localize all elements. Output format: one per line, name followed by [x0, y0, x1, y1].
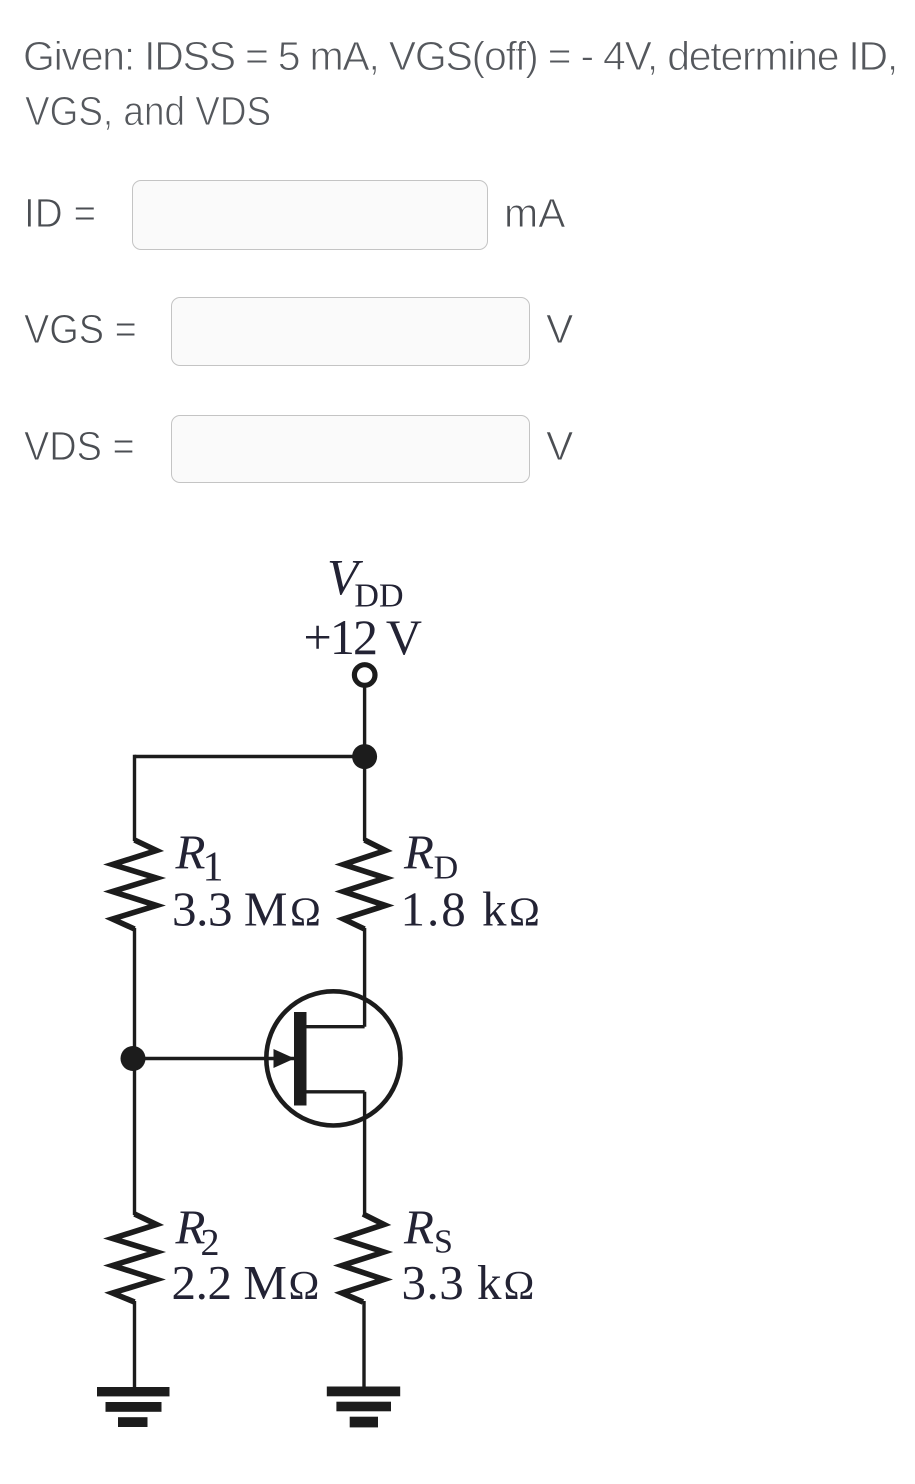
ground symbol right bar 3 [350, 1417, 378, 1428]
svg-text:1.8 k: 1.8 k [401, 882, 508, 937]
svg-text:Ω: Ω [509, 889, 540, 935]
svg-text:Ω: Ω [290, 889, 321, 935]
svg-text:R: R [403, 1200, 434, 1255]
wire: gate wire from gate node to JFET [135, 1057, 296, 1060]
ground symbol left bar 2 [106, 1402, 162, 1412]
ground symbol right bar 2 [336, 1402, 391, 1412]
question text line 2 [25, 88, 271, 135]
svg-text:3.3 k: 3.3 k [402, 1255, 503, 1310]
wire: right rail source down to RS [363, 1092, 366, 1215]
question text line 1 [23, 33, 897, 80]
wire: source stub from JFET [305, 1090, 365, 1093]
resistor RS 3.3 kohm zigzag [342, 1214, 384, 1302]
wire: drain stub into JFET [305, 1025, 365, 1028]
wire: left rail down to R1 [133, 755, 136, 841]
ground symbol left bar 1 [97, 1387, 170, 1396]
wire: right rail RS to ground [362, 1301, 365, 1388]
VDD terminal open circle [354, 665, 375, 686]
resistor R2 2.2 Mohm zigzag [113, 1214, 157, 1302]
svg-text:2.2 M: 2.2 M [172, 1255, 288, 1310]
transistor Q1 channel bar [294, 1012, 307, 1106]
row 3 label VDS = [24, 423, 135, 470]
wire: left rail R2 to ground [133, 1301, 136, 1388]
row 3 unit V [546, 423, 573, 470]
row 3 input box [171, 415, 530, 483]
wire: top horizontal from left rail to junction [135, 755, 365, 758]
row 1 label ID = [24, 190, 96, 237]
wire: left rail R1 to R2 through gate node [133, 928, 136, 1215]
row 2 label VGS = [24, 306, 137, 353]
resistor R1 3.3 Mohm zigzag [113, 840, 157, 929]
ground symbol right bar 1 [327, 1387, 400, 1397]
transistor Q1 JFET body circle [266, 991, 400, 1125]
svg-text:Ω: Ω [289, 1262, 320, 1308]
row 1 input box [132, 180, 488, 250]
wire: right rail RD down to drain stub [363, 928, 366, 1027]
gate node dot [121, 1046, 146, 1071]
svg-text:Ω: Ω [504, 1262, 535, 1308]
ground symbol left bar 3 [118, 1417, 148, 1427]
svg-text:+12 V: +12 V [304, 609, 423, 665]
row 2 input box [171, 297, 530, 366]
junction node dot [352, 744, 377, 769]
wire: VDD terminal to top junction [363, 685, 366, 757]
resistor RD 1.8 kohm zigzag [344, 840, 386, 929]
row 2 unit V [546, 306, 573, 353]
svg-text:3.3 M: 3.3 M [172, 882, 288, 937]
row 1 unit mA [504, 190, 566, 237]
transistor Q1 gate arrowhead [274, 1049, 295, 1068]
wire: right rail junction to RD [363, 757, 366, 842]
svg-text:R: R [175, 825, 206, 880]
svg-text:R: R [403, 825, 434, 880]
